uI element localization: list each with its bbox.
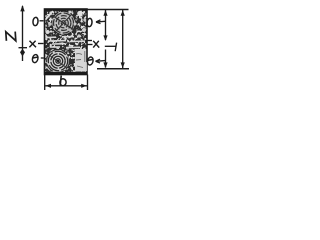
node label 0 (left end of plane 0-0) (33, 17, 39, 26)
leader dash to plane 0-0 left (40, 20, 44, 22)
value label H (105, 43, 117, 52)
winding block W (halftone photo of coil cross-section) (45, 9, 88, 75)
dimension line H (far right, full height) (121, 10, 125, 68)
leader dash to plane theta-theta left (41, 57, 44, 59)
node label x (right end of plane x-x) (93, 41, 99, 48)
dimension line x (inner right, 0-0 to x-x) (103, 10, 107, 68)
leader arrow from label 0 (96, 20, 105, 24)
node label 0 (right end of plane 0-0) (87, 18, 93, 27)
plane x-x tick marks at block edge (87, 40, 93, 42)
leader arrow from label theta (96, 59, 106, 63)
node label x (left end of plane x-x) (29, 41, 36, 48)
extension line bottom right (97, 68, 129, 70)
extension line top right (87, 9, 129, 11)
value label z (rotated) (6, 32, 16, 41)
node label theta (right end of plane theta-theta) (87, 56, 94, 65)
dimension b (bottom width) (45, 75, 88, 91)
dimension line z (left, coordinate from plane 0-0) (19, 5, 28, 61)
leader dash to plane x-x left (38, 43, 44, 45)
node label theta (left end of plane theta-theta) (32, 54, 39, 63)
value label b (59, 76, 66, 87)
